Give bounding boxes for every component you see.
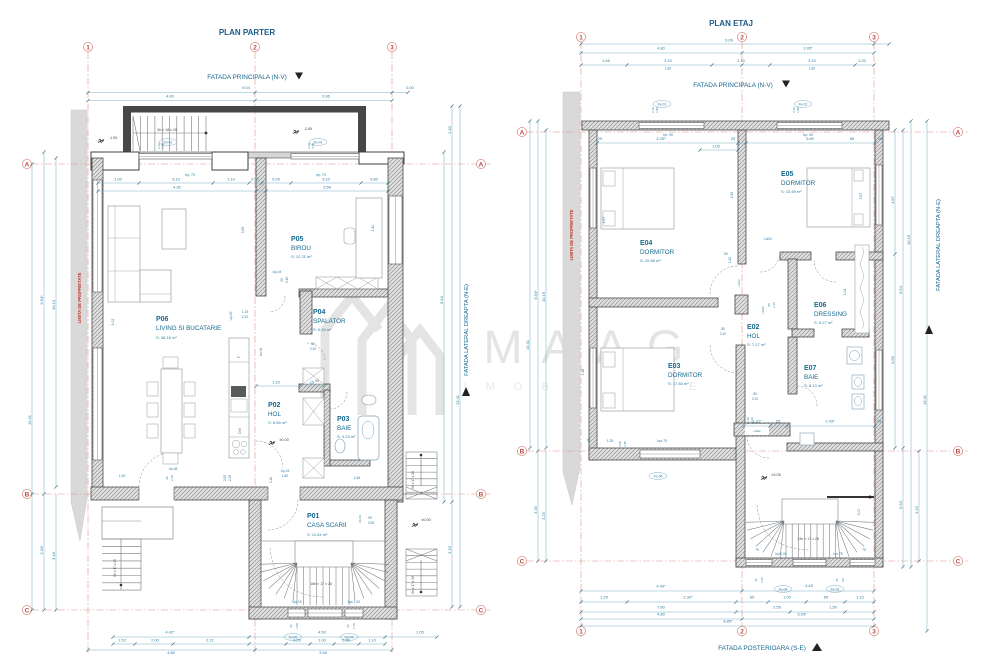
svg-text:P01: P01 <box>307 513 320 520</box>
left dim stack parter <box>31 164 33 610</box>
coffee table P06 <box>162 209 186 249</box>
terrace stairs parter <box>133 116 206 151</box>
svg-text:1.15: 1.15 <box>242 310 249 314</box>
svg-text:B: B <box>956 448 961 455</box>
svg-text:A: A <box>520 129 525 136</box>
window stair south 1 <box>746 560 772 566</box>
window south 1 <box>288 609 305 617</box>
svg-text:BAIE: BAIE <box>337 425 351 432</box>
stair walk line P01 <box>270 548 323 597</box>
svg-text:1.05: 1.05 <box>416 630 425 635</box>
svg-text:C: C <box>25 607 30 614</box>
svg-text:3.10: 3.10 <box>172 177 181 182</box>
svg-text:4.80: 4.80 <box>166 94 175 99</box>
porch step detail <box>102 520 141 522</box>
svg-text:0.52: 0.52 <box>251 177 260 182</box>
svg-text:1.00: 1.00 <box>114 177 123 182</box>
svg-text:2.21: 2.21 <box>206 638 215 643</box>
door arc Us-08 <box>139 452 174 487</box>
svg-text:9.54: 9.54 <box>898 285 903 294</box>
kitchen counter P06 <box>229 338 249 458</box>
door opening row B wall <box>268 486 300 501</box>
wall P05-P04 horizontal <box>299 289 388 297</box>
svg-text:90: 90 <box>280 278 284 282</box>
window stair south 3 <box>850 560 875 566</box>
wall P03 lower stub <box>330 460 370 466</box>
grid marker B left etaj <box>517 446 526 455</box>
watermark MAAG logo <box>325 296 440 415</box>
north wall pier middle <box>212 152 248 170</box>
svg-text:Up-05: Up-05 <box>229 311 233 320</box>
svg-text:2.10: 2.10 <box>242 315 249 319</box>
wall E04-E05 vertical <box>738 130 746 264</box>
svg-text:15: 15 <box>310 380 315 385</box>
svg-text:1.20: 1.20 <box>272 380 281 385</box>
svg-text:5.94: 5.94 <box>898 500 903 509</box>
level -1.05 <box>98 139 104 143</box>
svg-text:hpc 1.00: hpc 1.00 <box>348 600 360 604</box>
grid marker 2 top etaj <box>737 32 746 41</box>
svg-text:Ue04: Ue04 <box>761 306 765 314</box>
wall E04-E03 horizontal <box>589 298 718 307</box>
svg-text:2.10: 2.10 <box>720 332 726 336</box>
interior dim row parter <box>98 182 388 184</box>
svg-text:E02: E02 <box>747 324 760 331</box>
window east parter <box>389 196 402 264</box>
svg-text:10.16: 10.16 <box>906 234 911 245</box>
window west 1 etaj <box>590 168 596 228</box>
svg-text:2.10: 2.10 <box>752 397 758 401</box>
svg-text:1.00: 1.00 <box>712 144 721 149</box>
svg-text:1.80: 1.80 <box>809 67 815 71</box>
top dimension line 9.04 parter <box>88 92 408 94</box>
svg-text:3.95*: 3.95* <box>803 46 813 51</box>
svg-text:Us-08: Us-08 <box>169 467 178 471</box>
row B wall extension east <box>403 493 437 495</box>
vanity E07 <box>847 347 862 364</box>
window row B etaj <box>640 450 700 458</box>
svg-text:Ub-01: Ub-01 <box>358 515 362 524</box>
svg-text:1: 1 <box>579 628 583 635</box>
porch outline parter <box>102 507 173 539</box>
svg-text:S: 12.21 m²: S: 12.21 m² <box>291 254 312 259</box>
svg-text:FATADA POSTERIOARA (S-E): FATADA POSTERIOARA (S-E) <box>718 645 806 652</box>
svg-text:hpr 15: hpr 15 <box>292 600 301 604</box>
svg-text:W: W <box>315 378 319 383</box>
property strip left (limita de proprietate) <box>71 110 87 541</box>
svg-text:2.30*: 2.30* <box>683 595 693 600</box>
svg-text:Up-04: Up-04 <box>273 270 282 274</box>
svg-text:15.41: 15.41 <box>27 414 32 425</box>
svg-text:2.10: 2.10 <box>285 277 289 283</box>
svg-text:3.14: 3.14 <box>843 289 847 296</box>
bathtub P03 <box>358 416 379 460</box>
svg-text:1.64: 1.64 <box>354 476 361 480</box>
svg-text:E06: E06 <box>814 302 827 309</box>
grid marker 3 top parter <box>387 42 396 51</box>
landing east <box>412 523 418 527</box>
level mark P02 <box>269 441 275 445</box>
svg-text:19tr x 17 x 28: 19tr x 17 x 28 <box>797 537 819 541</box>
terrace wall top parter <box>123 106 366 113</box>
svg-text:4.80: 4.80 <box>167 650 176 655</box>
svg-text:1.80: 1.80 <box>665 67 671 71</box>
svg-text:3: 3 <box>872 34 876 41</box>
svg-text:2.10: 2.10 <box>750 417 754 423</box>
svg-text:9.54*: 9.54* <box>39 295 44 305</box>
door arc P05 <box>269 296 285 312</box>
window tag Fp-01 left <box>159 139 177 146</box>
svg-text:2: 2 <box>253 44 257 51</box>
svg-text:3.96: 3.96 <box>319 650 328 655</box>
stair upper flight edge etaj <box>827 496 874 498</box>
svg-text:1.10: 1.10 <box>227 177 236 182</box>
svg-text:42: 42 <box>387 477 391 481</box>
svg-text:DORMITOR: DORMITOR <box>668 372 703 379</box>
left dim stack etaj <box>529 121 531 448</box>
window tag Fp-01 right <box>309 139 327 146</box>
svg-text:25: 25 <box>776 419 781 424</box>
grid marker 1 top parter <box>83 42 92 51</box>
north wall pier left <box>91 152 139 170</box>
grid row C etaj <box>527 560 968 562</box>
svg-text:2.43*: 2.43* <box>825 419 835 424</box>
shower P02 <box>303 458 324 478</box>
sofa P06 <box>108 206 140 302</box>
svg-text:hpl 0.00: hpl 0.00 <box>775 552 787 556</box>
svg-text:FATADA PRINCIPALA (N-V): FATADA PRINCIPALA (N-V) <box>207 74 287 81</box>
svg-text:85: 85 <box>587 438 591 442</box>
svg-text:1.85: 1.85 <box>623 441 627 447</box>
svg-text:M: M <box>483 320 522 373</box>
svg-text:1.56: 1.56 <box>602 58 611 63</box>
svg-text:FATADA LATERAL DREAPTA (N-E): FATADA LATERAL DREAPTA (N-E) <box>464 284 470 376</box>
svg-text:3.25: 3.25 <box>541 511 546 520</box>
svg-text:3.80: 3.80 <box>806 136 815 141</box>
row B wall parter <box>91 487 403 500</box>
svg-text:1.10: 1.10 <box>856 595 865 600</box>
svg-text:BIROU: BIROU <box>291 245 311 252</box>
svg-text:CASA SCARII: CASA SCARII <box>307 522 347 529</box>
wall E05-E06 horizontal left <box>780 252 811 260</box>
svg-text:9.06: 9.06 <box>725 38 734 43</box>
wall P04 left vertical <box>300 291 312 334</box>
svg-text:25: 25 <box>878 136 883 141</box>
svg-text:6tr x 17 x 28: 6tr x 17 x 28 <box>113 559 117 577</box>
window west 2 etaj <box>590 348 596 408</box>
svg-text:3.33: 3.33 <box>447 545 452 554</box>
svg-text:S: 17.83 m²: S: 17.83 m² <box>668 381 689 386</box>
door arc E04 hall <box>710 266 738 294</box>
window west parter <box>93 180 102 292</box>
grid marker B right etaj <box>953 446 962 455</box>
bed E04 <box>601 168 674 229</box>
wall stub E03 door <box>735 295 748 314</box>
wall E06-E07 horizontal east <box>842 329 869 337</box>
svg-text:3.96: 3.96 <box>322 94 331 99</box>
svg-text:P06: P06 <box>156 316 169 323</box>
door arc E06 <box>814 260 836 282</box>
svg-text:3.35: 3.35 <box>533 505 538 514</box>
svg-text:4.40*: 4.40* <box>656 584 666 589</box>
bottom dim line 3 parter <box>88 649 392 651</box>
svg-text:0.65: 0.65 <box>342 638 351 643</box>
grid marker 2 bottom etaj <box>737 626 746 635</box>
svg-text:1.25: 1.25 <box>600 595 609 600</box>
svg-text:2: 2 <box>740 34 744 41</box>
svg-text:A: A <box>956 129 961 136</box>
svg-text:A: A <box>479 161 484 168</box>
window north 1 etaj <box>639 123 704 129</box>
svg-text:1.10: 1.10 <box>368 638 377 643</box>
grid row A etaj <box>527 131 968 133</box>
svg-text:25: 25 <box>877 419 882 424</box>
svg-text:1.80: 1.80 <box>282 474 288 478</box>
svg-text:1.25: 1.25 <box>607 439 614 443</box>
grid marker 1 bottom etaj <box>576 626 585 635</box>
svg-text:25: 25 <box>731 136 736 141</box>
outdoor stair upper east <box>406 452 437 499</box>
window west lower parter <box>93 348 102 460</box>
bottom dim line 2 parter <box>113 643 385 645</box>
window north 2 parter <box>291 154 359 160</box>
grid line 3 etaj <box>873 42 875 637</box>
grid row B parter <box>32 493 492 495</box>
svg-text:SPALATOR: SPALATOR <box>313 318 346 325</box>
svg-text:E05: E05 <box>781 171 794 178</box>
svg-text:9.12: 9.12 <box>111 319 115 326</box>
svg-text:-2.65: -2.65 <box>304 127 312 131</box>
svg-text:80: 80 <box>311 342 315 346</box>
svg-text:0.65: 0.65 <box>293 638 302 643</box>
svg-text:S: 8.13 m²: S: 8.13 m² <box>804 383 823 388</box>
svg-text:S: 11.54 m²: S: 11.54 m² <box>307 532 328 537</box>
svg-text:4.25*: 4.25* <box>656 136 666 141</box>
wall E02-E06 vertical <box>788 259 797 329</box>
wall E07 south <box>787 443 883 451</box>
svg-text:P05: P05 <box>291 236 304 243</box>
svg-text:2.00: 2.00 <box>151 638 160 643</box>
wall E05-E06 horizontal right <box>836 252 883 260</box>
svg-text:S: 4.23 m²: S: 4.23 m² <box>337 434 356 439</box>
svg-text:3.10: 3.10 <box>322 177 331 182</box>
grid line 3 parter <box>391 52 393 655</box>
svg-text:C: C <box>479 607 484 614</box>
grid marker C right parter <box>476 605 485 614</box>
wall E06-E07 horizontal west <box>792 329 814 337</box>
window tag Fe-01 right <box>794 101 812 108</box>
window north 1 parter <box>139 154 212 160</box>
closet P05 <box>316 277 378 289</box>
toilet E07 <box>852 375 864 389</box>
svg-text:C: C <box>956 558 961 565</box>
north wall pier right <box>359 152 404 164</box>
grid marker 2 top parter <box>250 42 259 51</box>
svg-text:9.54*: 9.54* <box>533 290 538 300</box>
svg-text:3.58: 3.58 <box>323 185 332 190</box>
right dim stack parter <box>443 152 445 502</box>
svg-text:HOL: HOL <box>268 411 281 418</box>
grid line 1 etaj <box>580 42 582 637</box>
svg-text:E04: E04 <box>640 240 653 247</box>
bed E03 <box>601 348 674 411</box>
svg-text:3.00: 3.00 <box>857 509 861 516</box>
staircase P01 <box>259 541 389 607</box>
svg-text:90: 90 <box>165 476 169 480</box>
stairwell east wall parter <box>385 500 397 619</box>
svg-text:Fe-01: Fe-01 <box>799 102 808 106</box>
svg-text:1.00: 1.00 <box>295 623 299 629</box>
svg-text:2.10: 2.10 <box>808 58 817 63</box>
svg-text:hp: 70: hp: 70 <box>185 173 195 177</box>
svg-text:4.45: 4.45 <box>805 583 814 588</box>
svg-text:3: 3 <box>390 44 394 51</box>
svg-text:3.18: 3.18 <box>51 551 56 560</box>
interior dim row etaj <box>597 142 875 144</box>
svg-text:4.80: 4.80 <box>657 612 666 617</box>
svg-text:1.40: 1.40 <box>447 125 452 134</box>
svg-text:1.80: 1.80 <box>655 107 659 113</box>
svg-text:18tr x 17 x 28: 18tr x 17 x 28 <box>310 582 332 586</box>
svg-text:1.00: 1.00 <box>318 638 327 643</box>
grid marker A right parter <box>476 159 485 168</box>
svg-text:PLAN PARTER: PLAN PARTER <box>219 28 276 37</box>
svg-text:S: 15.69 m²: S: 15.69 m² <box>781 189 802 194</box>
svg-text:S: 6.16 m²: S: 6.16 m² <box>313 327 332 332</box>
grid marker C left etaj <box>517 556 526 565</box>
grid marker C right etaj <box>953 556 962 565</box>
svg-text:2.55: 2.55 <box>773 605 782 610</box>
grid row B etaj <box>527 450 968 452</box>
svg-text:HOL: HOL <box>747 333 760 340</box>
dryer P04 <box>303 398 324 425</box>
grid marker B left parter <box>22 489 31 498</box>
top dimension line 4.80 3.96 parter <box>88 100 392 102</box>
svg-text:FATADA PRINCIPALA (N-V): FATADA PRINCIPALA (N-V) <box>693 82 773 89</box>
door arc P03 <box>330 392 347 409</box>
svg-text:8.85*: 8.85* <box>723 619 733 624</box>
toilet P03 <box>335 439 345 453</box>
svg-text:10.16: 10.16 <box>541 291 546 302</box>
window south 3 <box>345 609 363 617</box>
svg-text:DRESSING: DRESSING <box>814 311 847 318</box>
svg-text:1.20: 1.20 <box>858 58 867 63</box>
washer P04 <box>303 368 324 384</box>
svg-text:S: 5.27 m²: S: 5.27 m² <box>814 320 833 325</box>
door arc hall P01 <box>268 500 298 530</box>
svg-text:P03: P03 <box>337 416 350 423</box>
svg-text:2.00: 2.00 <box>618 441 622 447</box>
svg-text:2.10: 2.10 <box>737 58 746 63</box>
dim row hol <box>256 385 324 387</box>
outdoor stair lower east <box>406 549 437 596</box>
svg-text:45: 45 <box>835 578 839 582</box>
svg-text:80: 80 <box>753 392 757 396</box>
svg-text:4.80: 4.80 <box>657 46 666 51</box>
grid marker 1 top etaj <box>576 32 585 41</box>
stairwell west wall parter <box>249 500 261 619</box>
bottom dim line 5 etaj <box>581 625 874 627</box>
svg-text:S: 8.55 m²: S: 8.55 m² <box>268 420 287 425</box>
window north 2 etaj <box>777 123 842 129</box>
svg-text:1: 1 <box>86 44 90 51</box>
svg-text:B: B <box>479 491 484 498</box>
svg-text:Us04: Us04 <box>764 237 772 241</box>
row B wall etaj <box>589 448 740 460</box>
svg-text:3.43: 3.43 <box>730 192 734 199</box>
window south 2 <box>308 609 342 617</box>
svg-text:3.33*: 3.33* <box>39 545 44 555</box>
svg-text:1.00: 1.00 <box>119 474 126 478</box>
terrace wall left leg <box>123 106 131 155</box>
svg-text:75: 75 <box>755 548 759 552</box>
svg-text:2: 2 <box>740 628 744 635</box>
svg-text:S: 38.16 m²: S: 38.16 m² <box>156 335 177 340</box>
svg-text:A: A <box>25 161 30 168</box>
svg-text:2.65: 2.65 <box>368 521 374 525</box>
svg-text:95: 95 <box>368 516 372 520</box>
svg-text:65: 65 <box>750 595 755 600</box>
bottom dim line 2 etaj <box>581 601 874 603</box>
svg-text:DORMITOR: DORMITOR <box>781 180 816 187</box>
svg-text:2.25: 2.25 <box>760 577 764 583</box>
window tag Fe-01 left <box>653 101 671 108</box>
svg-text:0.80: 0.80 <box>370 177 379 182</box>
svg-text:0.00: 0.00 <box>406 85 415 90</box>
top dimension line 9.06 etaj <box>581 43 889 45</box>
svg-text:9tr x 18 x 28: 9tr x 18 x 28 <box>157 128 177 132</box>
svg-text:P04: P04 <box>313 309 326 316</box>
south wall stairwell parter <box>249 607 397 619</box>
svg-text:4.50: 4.50 <box>318 630 327 635</box>
svg-text:1.36: 1.36 <box>581 369 585 376</box>
svg-text:6tr x 17 x 28: 6tr x 17 x 28 <box>411 576 415 594</box>
svg-text:65: 65 <box>289 624 293 628</box>
door arc E03 <box>710 345 738 373</box>
svg-text:hpr 75: hpr 75 <box>833 552 842 556</box>
svg-text:90: 90 <box>841 578 845 582</box>
desk P05 <box>356 198 382 278</box>
svg-text:1.05: 1.05 <box>161 143 165 149</box>
svg-text:±3.05: ±3.05 <box>771 473 780 477</box>
north wall band parter <box>91 152 404 158</box>
door arc P04 <box>307 343 325 361</box>
wall P06-P05 vertical <box>256 158 266 296</box>
svg-text:4.30: 4.30 <box>173 185 182 190</box>
svg-text:LIVING SI BUCATARIE: LIVING SI BUCATARIE <box>156 325 221 332</box>
svg-text:2.25: 2.25 <box>228 475 232 481</box>
svg-text:2.10: 2.10 <box>269 477 273 483</box>
svg-text:Up-02: Up-02 <box>281 469 290 473</box>
grid row C parter <box>32 609 492 611</box>
west wall etaj <box>589 130 597 460</box>
stair walk line etaj <box>757 505 810 550</box>
grid marker A left etaj <box>517 127 526 136</box>
svg-text:Us02: Us02 <box>753 429 761 433</box>
svg-text:85: 85 <box>850 136 855 141</box>
top dimension row 3 etaj <box>581 64 874 66</box>
grid line 2 parter <box>254 52 256 655</box>
svg-text:3: 3 <box>872 628 876 635</box>
wall P02-P04 horizontal <box>299 384 330 392</box>
svg-text:65: 65 <box>346 624 350 628</box>
svg-text:Us-04: Us-04 <box>259 348 263 357</box>
svg-text:9.54: 9.54 <box>439 295 444 304</box>
svg-text:1.00: 1.00 <box>783 595 792 600</box>
window east 1 etaj <box>876 165 882 225</box>
door arc P06 hall <box>256 441 283 468</box>
svg-text:hpc 75: hpc 75 <box>657 439 667 443</box>
